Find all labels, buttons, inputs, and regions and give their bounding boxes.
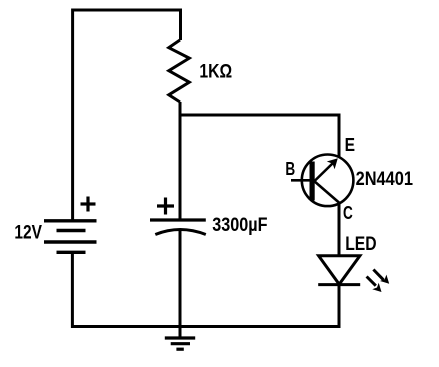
svg-text:2N4401: 2N4401 bbox=[356, 169, 414, 190]
capacitor C1 plus sign bbox=[157, 198, 174, 215]
transistor Q1 base lead bbox=[291, 179, 311, 182]
transistor Q1 circle bbox=[302, 155, 354, 207]
wire collector to LED bbox=[338, 204, 341, 257]
svg-text:E: E bbox=[345, 135, 355, 155]
svg-text:C: C bbox=[343, 203, 353, 223]
LED D1 cathode bar bbox=[318, 283, 360, 286]
wire mid horizontal bbox=[180, 115, 339, 158]
svg-text:12V: 12V bbox=[14, 223, 42, 244]
wire bottom bbox=[71, 325, 339, 328]
transistor Q1 emitter line bbox=[314, 163, 334, 183]
LED D1 light arrow 1 bbox=[373, 270, 389, 284]
wire LED to bottom bbox=[338, 285, 341, 328]
transistor Q1 collector line bbox=[314, 181, 340, 204]
svg-text:3300µF: 3300µF bbox=[212, 215, 267, 236]
wire capacitor to bottom bbox=[179, 229, 182, 327]
ground bbox=[165, 327, 195, 350]
battery B1 plus sign bbox=[81, 197, 96, 212]
battery B1 plates bbox=[44, 221, 97, 253]
svg-text:LED: LED bbox=[345, 234, 376, 255]
capacitor C1 curved plate bbox=[155, 230, 206, 235]
svg-text:1KΩ: 1KΩ bbox=[199, 62, 232, 83]
transistor Q1 emitter arrowhead bbox=[327, 158, 338, 169]
svg-text:B: B bbox=[285, 159, 295, 179]
transistor Q1 base bar bbox=[310, 162, 315, 201]
LED D1 triangle bbox=[319, 256, 360, 284]
resistor 1K bbox=[169, 40, 190, 102]
capacitor C1 top plate bbox=[150, 218, 206, 221]
wire resistor to junction bbox=[179, 102, 182, 115]
wire junction to capacitor bbox=[179, 115, 182, 219]
wire battery to bottom bbox=[71, 252, 74, 328]
LED D1 light arrow 2 bbox=[367, 277, 382, 293]
wire top bbox=[73, 10, 181, 221]
